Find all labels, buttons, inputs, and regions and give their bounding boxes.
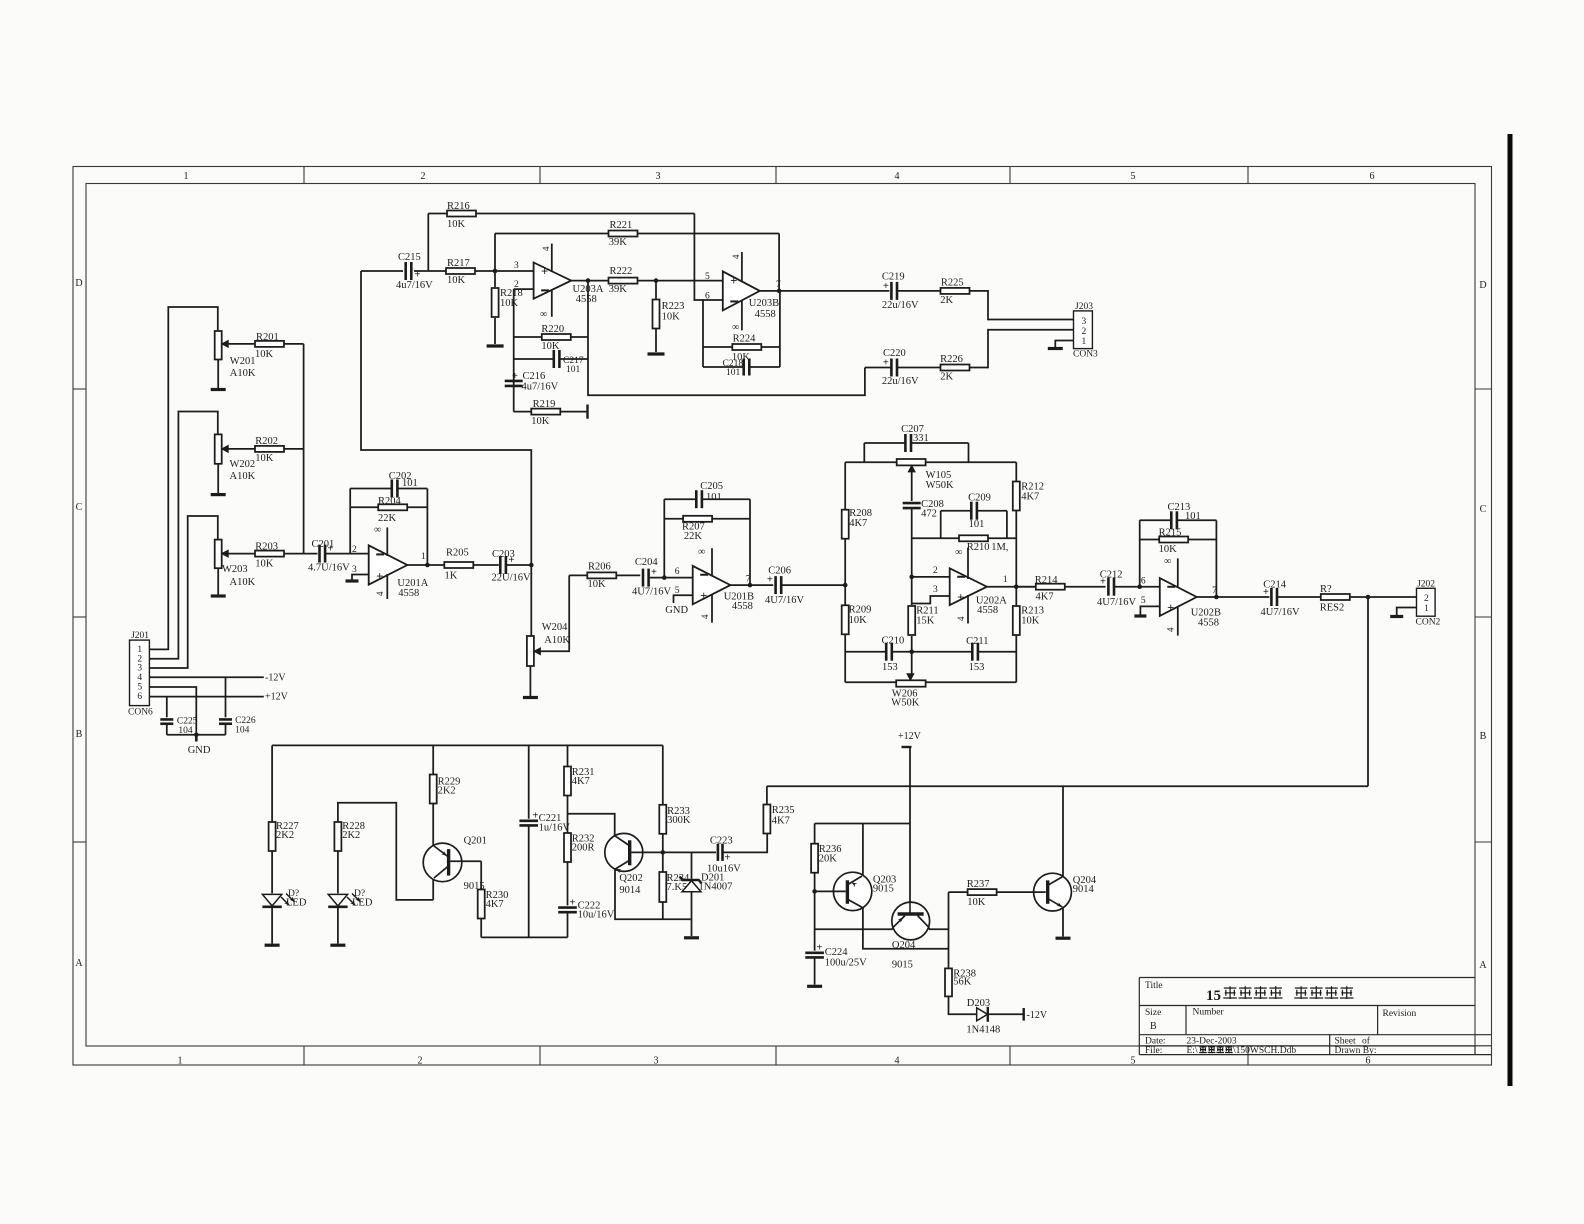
svg-text:RES2: RES2 <box>1320 603 1345 614</box>
svg-text:20K: 20K <box>819 854 838 865</box>
wire U202A output <box>987 586 1036 588</box>
resistor R201 <box>228 332 303 360</box>
node Q202 collector <box>661 850 666 855</box>
svg-text:R204: R204 <box>378 496 402 507</box>
wire base node down <box>814 891 816 950</box>
svg-text:15K: 15K <box>916 616 935 627</box>
svg-text:∞: ∞ <box>1164 556 1171 567</box>
resistor R230 <box>478 861 509 937</box>
svg-text:10K: 10K <box>531 416 550 427</box>
svg-text:C225: C225 <box>177 717 198 727</box>
svg-text:R221: R221 <box>610 220 633 231</box>
svg-text:2K: 2K <box>940 295 953 306</box>
resistor R216 <box>428 201 694 230</box>
resistor R225 <box>940 278 1073 320</box>
svg-text:3: 3 <box>933 585 938 595</box>
svg-text:Date:: Date: <box>1145 1037 1166 1047</box>
ground C224 <box>807 985 822 988</box>
resistor R220 <box>514 324 588 352</box>
svg-text:4U7/16V: 4U7/16V <box>632 587 672 598</box>
svg-text:4K7: 4K7 <box>572 776 590 787</box>
svg-text:W50K: W50K <box>926 480 954 491</box>
resistor R236 <box>811 824 841 892</box>
svg-text:+: + <box>1263 587 1269 598</box>
svg-text:5: 5 <box>1131 1056 1136 1067</box>
terminal W203 <box>211 594 226 597</box>
wire input node to C215 <box>361 270 403 272</box>
svg-text:10K: 10K <box>1021 616 1039 627</box>
svg-text:R225: R225 <box>941 278 964 289</box>
ground GND <box>188 735 211 756</box>
svg-text:Q201: Q201 <box>464 836 487 847</box>
svg-text:22u/16V: 22u/16V <box>882 376 919 387</box>
svg-text:1M,: 1M, <box>991 542 1008 553</box>
wire feedback right side down to C220 line <box>588 281 865 396</box>
wire R216 to pin6 <box>694 214 722 301</box>
terminal W201 <box>211 388 226 391</box>
svg-text:B: B <box>76 729 83 740</box>
node U203B output <box>777 289 782 294</box>
ground R223 <box>648 352 665 355</box>
terminal W202 <box>211 493 226 496</box>
terminal LED1 <box>265 944 280 947</box>
resistor R202 <box>228 436 303 464</box>
svg-text:R237: R237 <box>967 879 990 890</box>
svg-text:100u/25V: 100u/25V <box>825 958 867 969</box>
svg-text:C: C <box>76 502 83 513</box>
wire pin3 <box>912 596 950 604</box>
node gnd <box>194 733 199 738</box>
wire LED1 bottom <box>271 907 273 944</box>
wire gnd row <box>167 734 226 736</box>
svg-text:A: A <box>75 958 83 969</box>
capacitor C219 <box>882 272 940 312</box>
wire left branch vertical <box>844 462 846 682</box>
svg-text:+: + <box>817 943 823 954</box>
resistor R213 <box>1013 606 1044 636</box>
svg-text:Q202: Q202 <box>619 873 642 884</box>
svg-text:9014: 9014 <box>1073 884 1095 895</box>
svg-text:∞: ∞ <box>732 322 739 333</box>
svg-text:2: 2 <box>1082 327 1087 337</box>
wire U201B output <box>730 584 773 586</box>
svg-text:7: 7 <box>746 575 751 585</box>
capacitor C214 <box>1261 580 1321 619</box>
node U201A output <box>425 563 430 568</box>
svg-text:4: 4 <box>1166 627 1176 632</box>
svg-text:10K: 10K <box>541 341 560 352</box>
svg-text:1K: 1K <box>445 571 458 582</box>
node U202B output <box>1214 595 1219 600</box>
svg-text:2: 2 <box>352 545 357 555</box>
wire J201 pin1 to W201 top <box>149 307 217 649</box>
resistor R209 <box>842 605 872 635</box>
wire feedback U201B left <box>663 499 665 577</box>
capacitor C218 <box>703 347 780 378</box>
resistor R212 <box>1013 482 1044 511</box>
svg-text:R235: R235 <box>772 805 795 816</box>
connector J201 <box>128 631 153 718</box>
svg-text:A10K: A10K <box>230 471 256 482</box>
potentiometer W204 <box>527 622 570 666</box>
svg-text:+: + <box>415 270 421 281</box>
resistor R222 <box>609 266 723 295</box>
svg-text:472: 472 <box>921 509 937 520</box>
svg-text:Sheet: Sheet <box>1335 1037 1356 1047</box>
ground U201A pin3 <box>346 579 359 582</box>
resistor R203 <box>228 542 317 570</box>
svg-text:7: 7 <box>1212 586 1217 596</box>
svg-text:5: 5 <box>1131 171 1136 182</box>
svg-text:4558: 4558 <box>977 605 998 616</box>
wire inverting input chain down <box>513 289 515 412</box>
wire J202 pin1 to ground <box>1397 608 1417 616</box>
resistor R232 <box>564 833 594 905</box>
wire pin2 row <box>912 576 950 578</box>
svg-text:6: 6 <box>137 692 142 702</box>
svg-text:153: 153 <box>969 662 985 673</box>
svg-text:B: B <box>1480 731 1487 742</box>
LED D? <box>262 889 306 909</box>
svg-text:3: 3 <box>654 1056 659 1067</box>
svg-text:2: 2 <box>933 566 938 576</box>
capacitor C206 <box>765 566 845 607</box>
resistor R229 <box>430 745 461 845</box>
svg-text:CON3: CON3 <box>1073 350 1098 360</box>
svg-text:C209: C209 <box>968 493 991 504</box>
svg-text:1: 1 <box>1424 604 1429 614</box>
svg-text:+: + <box>533 811 539 822</box>
svg-text:9015: 9015 <box>873 884 894 895</box>
wire input node down to W204 top row <box>361 271 531 636</box>
svg-text:D: D <box>75 278 82 289</box>
node U202A output <box>1014 584 1019 589</box>
wire right branch vertical <box>1015 462 1017 682</box>
svg-text:3: 3 <box>352 565 357 575</box>
file path text <box>1187 1046 1297 1056</box>
svg-text:4K7: 4K7 <box>1036 592 1054 603</box>
wire U202B output <box>1197 596 1270 598</box>
transistor Q203 <box>815 872 897 910</box>
svg-text:10u16V: 10u16V <box>707 864 741 875</box>
svg-text:+: + <box>541 264 548 278</box>
svg-text:+: + <box>957 590 964 604</box>
svg-text:101: 101 <box>1185 511 1201 522</box>
svg-text:5: 5 <box>705 272 710 282</box>
svg-text:39K: 39K <box>609 237 628 248</box>
resistor R215 <box>1140 528 1217 556</box>
svg-text:1: 1 <box>1003 575 1008 585</box>
wire Q204R collector <box>1062 786 1064 877</box>
ground R218 <box>487 344 504 347</box>
svg-text:4K7: 4K7 <box>772 816 790 827</box>
svg-text:6: 6 <box>705 292 710 302</box>
svg-text:101: 101 <box>402 478 418 489</box>
wire W201 bottom <box>217 360 219 389</box>
wire Q203 collector <box>862 824 864 876</box>
wire U203B output <box>760 290 890 292</box>
wire to R221 <box>494 234 496 272</box>
svg-text:4: 4 <box>375 591 385 596</box>
svg-text:10K: 10K <box>447 275 466 286</box>
svg-text:E:\: E:\ <box>1187 1046 1198 1056</box>
wire output to mute rail <box>1367 597 1369 786</box>
svg-text:R215: R215 <box>1159 528 1182 539</box>
op-amp U203A <box>514 244 604 320</box>
svg-text:6: 6 <box>1141 577 1146 587</box>
svg-text:GND: GND <box>188 745 211 756</box>
svg-text:200R: 200R <box>572 843 595 854</box>
ground J202 <box>1390 615 1403 618</box>
svg-text:9015: 9015 <box>892 960 913 971</box>
LED D? 2 <box>328 889 373 909</box>
svg-text:+: + <box>883 358 889 369</box>
capacitor C226 <box>219 677 256 735</box>
wire feedback U201A right <box>426 489 428 566</box>
svg-text:C216: C216 <box>523 371 546 382</box>
connector J202 <box>1416 580 1441 628</box>
op-amp U201A <box>352 525 429 600</box>
svg-text:R222: R222 <box>610 266 633 277</box>
svg-text:R219: R219 <box>533 399 556 410</box>
svg-text:C205: C205 <box>700 481 723 492</box>
resistor R238 <box>945 968 977 1014</box>
wire W202 bottom <box>217 464 219 493</box>
svg-text:R217: R217 <box>447 258 470 269</box>
svg-text:R226: R226 <box>940 354 963 365</box>
wire J201 pin2 to W202 top <box>149 412 217 659</box>
svg-text:9014: 9014 <box>619 885 641 896</box>
svg-text:CON2: CON2 <box>1416 618 1441 628</box>
svg-text:4K7: 4K7 <box>486 899 504 910</box>
svg-text:W204: W204 <box>542 622 568 633</box>
wire pin5 to ground <box>1140 606 1159 614</box>
svg-text:6: 6 <box>1370 171 1375 182</box>
svg-text:∞: ∞ <box>540 309 547 320</box>
svg-text:2K2: 2K2 <box>438 786 456 797</box>
svg-text:R216: R216 <box>447 201 470 212</box>
svg-text:Number: Number <box>1193 1008 1225 1018</box>
svg-text:10K: 10K <box>1159 544 1178 555</box>
title text 15 cun amplifier control circuit <box>1206 986 1354 1004</box>
svg-text:R205: R205 <box>446 548 469 559</box>
svg-text:+: + <box>883 281 889 292</box>
svg-text:+: + <box>651 567 657 578</box>
capacitor C215 <box>396 252 446 291</box>
wire Q204 collector right <box>929 928 949 930</box>
wire feedback U202B left <box>1139 520 1141 586</box>
svg-text:2: 2 <box>1424 594 1429 604</box>
svg-text:LED: LED <box>352 898 373 909</box>
op-amp U203B <box>705 252 779 333</box>
svg-text:Title: Title <box>1145 981 1163 991</box>
svg-text:2K2: 2K2 <box>342 830 360 841</box>
wire J203 pin1 to ground <box>1055 341 1073 348</box>
op-amp U202A <box>950 547 1008 624</box>
terminal LED2 <box>330 944 345 947</box>
node output U203A <box>586 278 591 283</box>
svg-text:10K: 10K <box>849 615 868 626</box>
svg-text:C226: C226 <box>235 716 256 726</box>
wire U201A output <box>407 564 444 566</box>
capacitor C216 <box>505 371 559 393</box>
capacitor C221 <box>519 745 570 937</box>
resistor R211 <box>908 577 938 652</box>
resistor R234 <box>659 852 690 919</box>
resistor R223 <box>653 281 685 352</box>
svg-text:153: 153 <box>882 662 898 673</box>
wire feedback U201B right <box>749 499 751 585</box>
power -12V <box>1024 1008 1048 1021</box>
resistor R218 <box>492 271 523 344</box>
svg-text:File:: File: <box>1145 1046 1162 1056</box>
svg-text:4K7: 4K7 <box>849 518 867 529</box>
svg-text:1N4007: 1N4007 <box>699 882 733 893</box>
svg-text:1N4148: 1N4148 <box>966 1025 1000 1036</box>
capacitor C211 <box>912 636 1017 673</box>
svg-text:10K: 10K <box>967 897 986 908</box>
svg-text:R202: R202 <box>255 436 278 447</box>
svg-text:-12V: -12V <box>265 673 286 684</box>
potentiometer W203 <box>215 540 256 588</box>
svg-text:10K: 10K <box>255 453 274 464</box>
svg-text:C211: C211 <box>966 636 988 647</box>
power +12V <box>898 731 922 913</box>
op-amp U201B <box>675 547 754 623</box>
transistor Q202 <box>605 833 663 896</box>
svg-text:J203: J203 <box>1075 302 1093 312</box>
potentiometer W201 <box>215 331 256 379</box>
potentiometer W206 <box>891 674 925 709</box>
ground U202B pin5 <box>1134 614 1146 617</box>
svg-text:4.7U/16V: 4.7U/16V <box>308 563 350 574</box>
wire Q202 emitter rail <box>615 869 691 919</box>
wire pin6 down to feedback <box>702 300 704 367</box>
svg-text:101: 101 <box>726 368 741 378</box>
diode D203 <box>966 998 1022 1036</box>
svg-text:4558: 4558 <box>732 601 753 612</box>
svg-text:R210: R210 <box>967 542 990 553</box>
svg-text:300K: 300K <box>667 815 691 826</box>
svg-text:10K: 10K <box>588 579 607 590</box>
svg-text:104: 104 <box>235 726 250 736</box>
svg-text:∞: ∞ <box>374 525 381 536</box>
svg-text:22K: 22K <box>684 531 703 542</box>
svg-text:LED: LED <box>286 898 307 909</box>
svg-text:4U7/16V: 4U7/16V <box>765 595 805 606</box>
node input/left branch <box>843 583 848 588</box>
wire LED2 bottom <box>337 907 339 944</box>
svg-text:2K: 2K <box>940 372 953 383</box>
resistor R231 <box>564 745 594 833</box>
svg-text:W50K: W50K <box>891 698 919 709</box>
capacitor C225 <box>160 697 197 736</box>
svg-text:R220: R220 <box>541 324 564 335</box>
wire mute rail <box>767 785 1368 787</box>
svg-text:22K: 22K <box>378 513 397 524</box>
wire Q204 node vertical <box>948 892 950 968</box>
svg-text:+: + <box>512 371 518 382</box>
svg-text:A: A <box>1479 960 1487 971</box>
svg-text:4: 4 <box>895 171 900 182</box>
wire Q204 emitter left <box>815 928 894 930</box>
svg-text:W203: W203 <box>222 564 248 575</box>
op-amp U202B <box>1141 556 1221 636</box>
svg-text:10K: 10K <box>500 298 519 309</box>
svg-text:4u7/16V: 4u7/16V <box>522 382 559 393</box>
svg-text:C215: C215 <box>398 252 421 263</box>
svg-text:of: of <box>1362 1036 1371 1047</box>
svg-text:1: 1 <box>178 1056 183 1067</box>
capacitor C209 <box>941 493 1007 539</box>
resistor R228 <box>334 803 433 900</box>
svg-text:J202: J202 <box>1417 580 1435 590</box>
node C203/W204 <box>529 563 534 568</box>
svg-text:4: 4 <box>137 673 142 683</box>
svg-text:C223: C223 <box>710 836 733 847</box>
capacitor C203 <box>492 549 532 584</box>
svg-text:3: 3 <box>514 261 519 271</box>
wire Q203 emitter <box>863 908 949 949</box>
ground Q204R <box>1056 937 1071 940</box>
node C204/feedback <box>662 575 667 580</box>
svg-text:10u/16V: 10u/16V <box>578 910 615 921</box>
ground D201 <box>684 936 699 939</box>
terminal W204 <box>523 696 538 699</box>
svg-text:4558: 4558 <box>755 309 776 320</box>
svg-text:+: + <box>1100 577 1106 588</box>
svg-text:39K: 39K <box>609 284 628 295</box>
svg-text:4u7/16V: 4u7/16V <box>396 280 433 291</box>
svg-text:W201: W201 <box>230 356 256 367</box>
svg-text:101: 101 <box>969 519 985 530</box>
svg-text:15: 15 <box>1206 988 1221 1004</box>
svg-text:331: 331 <box>913 433 929 444</box>
title block <box>1139 978 1491 1057</box>
resistor R204 <box>350 496 427 524</box>
svg-text:+: + <box>730 274 737 288</box>
capacitor C212 <box>1097 570 1160 609</box>
svg-text:+: + <box>725 853 731 864</box>
resistor R233 <box>659 745 691 852</box>
wire Q202 base <box>568 814 615 836</box>
svg-text:B: B <box>1150 1021 1157 1032</box>
resistor R217 <box>446 258 534 286</box>
svg-text:+: + <box>767 575 773 586</box>
capacitor C208 <box>903 499 944 520</box>
capacitor C204 <box>632 557 693 598</box>
wire feedback U202B right <box>1215 520 1217 597</box>
wire pin5 to GND <box>674 595 693 603</box>
svg-text:1u/16V: 1u/16V <box>539 823 571 834</box>
wire W206 row <box>845 681 896 683</box>
resistor R210 <box>912 535 1017 553</box>
svg-text:10K: 10K <box>255 349 274 360</box>
wire feedback U201A left <box>349 489 351 554</box>
wire Q204R emitter <box>1062 907 1064 937</box>
capacitor C201 <box>308 539 369 574</box>
node Q203 base <box>812 889 817 894</box>
wire bottom rail <box>481 936 567 938</box>
node U201B output <box>748 583 753 588</box>
svg-text:6: 6 <box>1366 1056 1371 1067</box>
wire collector node to C223 <box>663 851 716 853</box>
svg-text:+: + <box>700 589 707 603</box>
transistor Q204 right <box>1034 873 1097 911</box>
svg-text:D: D <box>1479 280 1486 291</box>
resistor R227 <box>269 745 299 893</box>
svg-text:CON6: CON6 <box>128 708 153 718</box>
